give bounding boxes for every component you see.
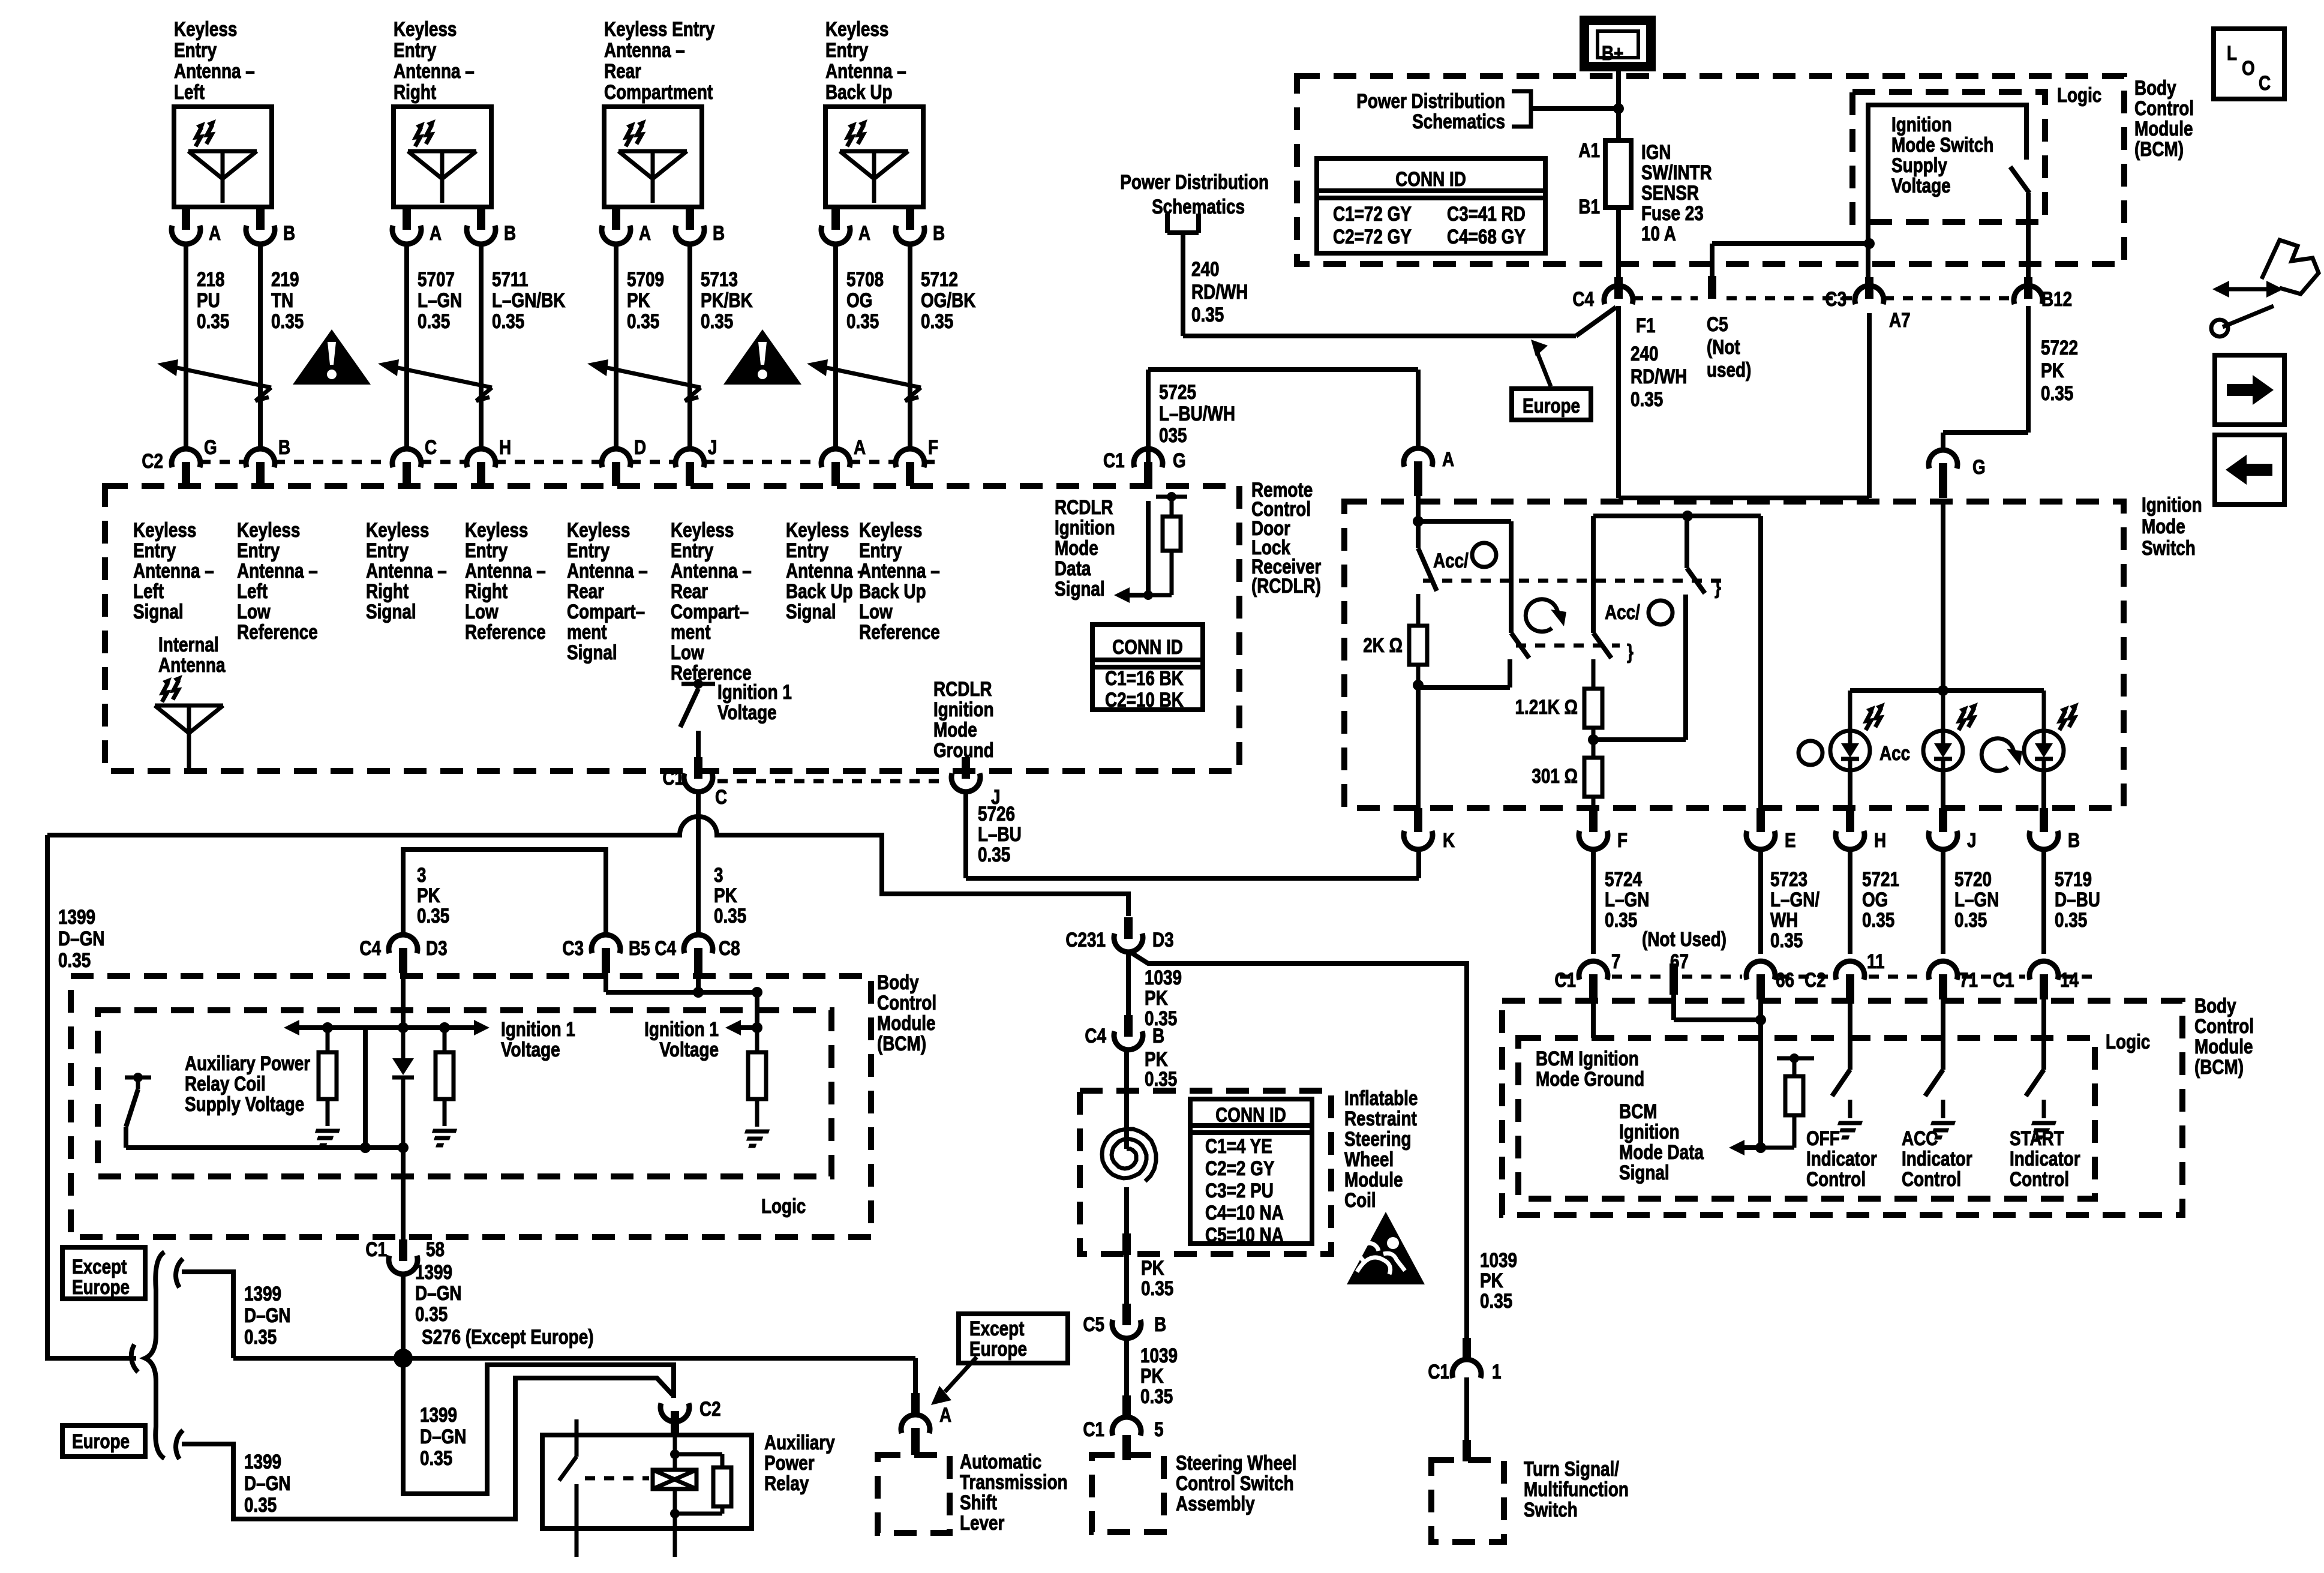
svg-text:C2: C2 <box>1804 968 1826 991</box>
automatic transmission wire <box>913 1358 918 1413</box>
svg-text:Acc: Acc <box>1879 742 1910 764</box>
svg-text:C4=68 GY: C4=68 GY <box>1447 225 1526 248</box>
svg-text:C1: C1 <box>662 766 684 789</box>
svg-text:Low: Low <box>465 600 499 623</box>
turn signal multifunction switch box <box>1431 1460 1504 1542</box>
svg-text:Signal: Signal <box>786 600 836 623</box>
svg-text:1039: 1039 <box>1140 1344 1178 1367</box>
diode <box>392 1028 414 1148</box>
wire A antenna 1 <box>184 245 188 448</box>
label C1 row left <box>1554 968 1576 991</box>
svg-text:Ignition: Ignition <box>1891 113 1952 136</box>
svg-text:0.35: 0.35 <box>417 904 449 927</box>
linkage dashed line 2 <box>1516 644 1620 648</box>
auxiliary power relay box <box>542 1435 752 1529</box>
label IGN SW fuse <box>1641 140 1712 245</box>
svg-text:Body: Body <box>2134 76 2176 99</box>
hook lower <box>176 1430 183 1459</box>
relay coil wiring <box>670 1436 731 1557</box>
wire label PK lower <box>1141 1256 1173 1299</box>
wire B antenna 2 <box>479 245 484 448</box>
svg-text:ACC: ACC <box>1902 1127 1938 1149</box>
svg-text:B: B <box>1152 1024 1164 1047</box>
svg-text:5707: 5707 <box>418 268 455 290</box>
connector C1 pin 1 <box>1428 1338 1501 1383</box>
svg-text:Ignition 1: Ignition 1 <box>717 680 792 703</box>
svg-text:Keyless: Keyless <box>859 518 922 541</box>
BCM bottom left box <box>71 976 871 1237</box>
wire label 5720 <box>1954 867 1999 931</box>
wire BCM pin 66 <box>1755 998 1766 1153</box>
antenna box 2 <box>394 107 491 207</box>
svg-text:Voltage: Voltage <box>659 1038 719 1061</box>
wire out of coil <box>1122 1187 1131 1304</box>
svg-text:Supply: Supply <box>1891 154 1948 176</box>
svg-text:A: A <box>209 221 221 244</box>
pin B antenna 3 <box>675 207 725 245</box>
LED bus <box>1850 685 2044 696</box>
ACC indicator control switch <box>1925 998 1955 1137</box>
svg-text:A7: A7 <box>1889 308 1911 331</box>
ignition mode switch box <box>1344 502 2124 808</box>
svg-text:RCDLR: RCDLR <box>1055 496 1113 518</box>
S276 bus <box>233 1356 915 1361</box>
rotate arrow 1 <box>1526 599 1566 632</box>
resistor ignition1 right <box>740 1028 769 1146</box>
svg-text:Mode: Mode <box>2142 515 2185 538</box>
Europe tag top <box>1512 340 1591 420</box>
svg-text:C5: C5 <box>1707 313 1728 335</box>
svg-text:0.35: 0.35 <box>1770 929 1803 951</box>
svg-text:A1: A1 <box>1578 139 1600 161</box>
label ignition 1 voltage left <box>501 1017 575 1061</box>
svg-text:IGN: IGN <box>1641 140 1671 163</box>
svg-text:L–BU/WH: L–BU/WH <box>1159 402 1235 425</box>
svg-text:B5: B5 <box>629 936 650 959</box>
wire C5 to C1 <box>1124 1340 1129 1397</box>
label steering wheel control switch assembly <box>1176 1451 1296 1515</box>
svg-text:A: A <box>854 436 866 458</box>
connector C1 pin 5 <box>1083 1395 1163 1441</box>
wire A antenna 2 <box>404 245 409 448</box>
svg-text:PK: PK <box>714 884 737 906</box>
wire label 3 PK left <box>417 863 449 927</box>
svg-text:0.35: 0.35 <box>1631 388 1663 410</box>
svg-text:Lever: Lever <box>960 1511 1004 1534</box>
svg-text:67: 67 <box>1670 950 1689 972</box>
svg-text:Keyless: Keyless <box>825 17 888 40</box>
svg-text:B: B <box>1154 1313 1166 1335</box>
relay switch <box>559 1419 577 1557</box>
rotate arrow 3 <box>1981 739 2022 771</box>
svg-text:Ignition: Ignition <box>1055 516 1115 539</box>
svg-text:C1=16 BK: C1=16 BK <box>1105 667 1184 689</box>
svg-text:0.35: 0.35 <box>846 310 879 332</box>
svg-text:F: F <box>1617 828 1628 851</box>
svg-text:Body: Body <box>2194 994 2236 1017</box>
wire 5725 loop <box>1148 370 1418 464</box>
svg-text:Antenna –: Antenna – <box>394 59 475 82</box>
svg-text:C4=10 NA: C4=10 NA <box>1205 1201 1284 1224</box>
label OFF indicator control <box>1806 1127 1877 1190</box>
wire 5724 <box>1591 851 1596 954</box>
label RCDLR ignition mode ground <box>933 677 994 761</box>
svg-text:0.35: 0.35 <box>1140 1385 1173 1407</box>
svg-text:Left: Left <box>174 80 205 103</box>
svg-text:218: 218 <box>197 268 225 290</box>
label power distribution schematics left <box>1120 170 1269 218</box>
svg-text:J: J <box>708 436 717 458</box>
label Acc 2 <box>1605 601 1673 625</box>
IMS A wire <box>1413 495 1424 548</box>
svg-text:C3: C3 <box>562 936 584 959</box>
wire label 5719 <box>2055 867 2100 931</box>
svg-text:D–GN: D–GN <box>244 1472 290 1494</box>
label logic top <box>2057 83 2101 106</box>
svg-text:Entry: Entry <box>859 539 902 562</box>
svg-text:}: } <box>1627 640 1634 663</box>
IMS wire to E <box>1758 516 1763 808</box>
svg-text:Supply Voltage: Supply Voltage <box>185 1092 304 1115</box>
LED OFF indicator <box>1830 691 1885 808</box>
next arrow box <box>2215 355 2284 425</box>
connector row dashed line fuse block <box>1633 296 2014 301</box>
svg-text:Control: Control <box>1902 1167 1961 1190</box>
internal antenna symbol <box>155 675 223 774</box>
ignition 1 voltage arrow right <box>725 1020 757 1035</box>
svg-text:Entry: Entry <box>133 539 176 562</box>
svg-text:Antenna –: Antenna – <box>859 559 940 582</box>
svg-text:C1=72 GY: C1=72 GY <box>1333 202 1412 225</box>
connector C2 pin J <box>675 436 717 486</box>
svg-text:OG/BK: OG/BK <box>921 289 976 311</box>
svg-text:C4: C4 <box>1085 1024 1106 1047</box>
svg-text:1399: 1399 <box>415 1260 452 1283</box>
splice S276 <box>394 1349 413 1368</box>
svg-text:L: L <box>2227 41 2237 64</box>
svg-text:Keyless: Keyless <box>174 17 237 40</box>
svg-text:Antenna –: Antenna – <box>133 559 214 582</box>
svg-text:Compart–: Compart– <box>567 600 645 623</box>
svg-text:0.35: 0.35 <box>1480 1289 1512 1312</box>
svg-text:Control: Control <box>2134 97 2194 119</box>
svg-text:Schematics: Schematics <box>1412 110 1505 133</box>
connector C2 relay <box>660 1397 721 1436</box>
wire power distribution to B+ <box>1531 103 1624 114</box>
label logic left <box>761 1194 806 1217</box>
RCDLR ignition 1 voltage switch <box>680 679 715 757</box>
RCDLR pin function label <box>366 518 447 623</box>
svg-text:Switch: Switch <box>2142 536 2196 559</box>
svg-text:0.35: 0.35 <box>420 1446 452 1469</box>
svg-text:0.35: 0.35 <box>627 310 659 332</box>
svg-text:0.35: 0.35 <box>2041 382 2073 404</box>
except europe arrow 2 <box>931 1357 977 1405</box>
svg-text:Module: Module <box>877 1011 936 1034</box>
svg-text:Schematics: Schematics <box>1152 195 1245 218</box>
BCM ignition mode data signal arrow <box>1729 1140 1761 1155</box>
antenna box 3 <box>604 107 702 207</box>
wire label 1399 relay branch <box>420 1403 466 1469</box>
wire label 3 PK right <box>714 863 746 927</box>
svg-text:Keyless: Keyless <box>465 518 528 541</box>
svg-text:G: G <box>1972 455 1986 478</box>
svg-text:Auxiliary: Auxiliary <box>764 1431 835 1454</box>
wire B+ to fuse <box>1616 67 1621 140</box>
wire 58 to S276 <box>401 1275 406 1350</box>
wire label 5712 <box>921 268 976 332</box>
svg-text:Body: Body <box>877 971 919 993</box>
svg-text:Left: Left <box>133 580 164 602</box>
label power distribution schematics (BCM) <box>1356 89 1505 133</box>
svg-text:Power Distribution: Power Distribution <box>1356 89 1505 112</box>
svg-text:C: C <box>425 436 437 458</box>
label keyless entry antenna 3 <box>604 17 715 103</box>
svg-text:5723: 5723 <box>1770 867 1807 890</box>
svg-text:A: A <box>858 221 870 244</box>
wire label 240 RD/WH right <box>1631 342 1687 410</box>
twisted pair arrow 4 <box>807 359 921 401</box>
svg-text:used): used) <box>1707 358 1751 381</box>
svg-text:Back Up: Back Up <box>859 580 926 602</box>
svg-text:Logic: Logic <box>761 1194 806 1217</box>
svg-text:C3: C3 <box>1825 287 1846 310</box>
connector J (IMS) <box>1929 808 1977 852</box>
svg-text:3: 3 <box>714 863 723 886</box>
wire 1399 horizontal with hop <box>47 816 1128 916</box>
svg-text:(BCM): (BCM) <box>877 1032 926 1055</box>
svg-text:D–BU: D–BU <box>2055 888 2100 911</box>
svg-text:Antenna –: Antenna – <box>237 559 318 582</box>
svg-text:Mode Switch: Mode Switch <box>1891 133 1993 156</box>
svg-text:Entry: Entry <box>394 38 437 61</box>
label ACC indicator control <box>1902 1127 1972 1190</box>
label ignition mode switch <box>2142 493 2202 559</box>
svg-text:5: 5 <box>1154 1418 1164 1440</box>
svg-text:0.35: 0.35 <box>271 310 304 332</box>
antenna symbol 1 <box>188 119 257 203</box>
svg-text:Power Distribution: Power Distribution <box>1120 170 1269 193</box>
wire 5723 <box>1758 851 1763 954</box>
svg-text:Ignition: Ignition <box>933 698 994 721</box>
svg-text:Reference: Reference <box>237 620 318 643</box>
svg-text:Except: Except <box>969 1317 1024 1340</box>
label BCM ignition mode ground <box>1536 1047 1644 1090</box>
ignition1 voltage bar <box>284 1020 490 1035</box>
svg-text:Signal: Signal <box>133 600 184 623</box>
wire 240 RD/WH to fork <box>1183 233 1616 336</box>
svg-text:Rear: Rear <box>567 580 604 602</box>
svg-text:Entry: Entry <box>174 38 217 61</box>
svg-text:Internal: Internal <box>158 633 219 656</box>
svg-text:Entry: Entry <box>825 38 869 61</box>
svg-text:SW/INTR: SW/INTR <box>1641 161 1712 184</box>
label Acc 3 <box>1879 742 1910 764</box>
svg-text:5708: 5708 <box>846 268 884 290</box>
back arrow box <box>2215 435 2284 505</box>
svg-text:Keyless: Keyless <box>567 518 630 541</box>
svg-text:D3: D3 <box>1152 928 1174 951</box>
wire 5721 <box>1848 851 1852 954</box>
svg-text:11: 11 <box>1867 950 1884 972</box>
twisted pair arrow 2 <box>378 359 492 401</box>
label C2 connector <box>142 449 163 472</box>
wire into SWCS <box>1122 1435 1131 1460</box>
svg-text:WH: WH <box>1770 908 1798 931</box>
logic box right <box>1518 1038 2095 1199</box>
svg-text:Turn Signal/: Turn Signal/ <box>1524 1457 1619 1480</box>
svg-text:E: E <box>1785 828 1796 851</box>
svg-text:PU: PU <box>197 289 220 311</box>
connector C4 pin C8 <box>654 935 740 973</box>
svg-text:L–GN: L–GN <box>1954 888 1999 911</box>
svg-text:C1=4 YE: C1=4 YE <box>1205 1134 1272 1157</box>
service icon <box>2211 240 2319 337</box>
svg-text:Fuse 23: Fuse 23 <box>1641 202 1704 224</box>
wire B antenna 3 <box>687 245 692 448</box>
wire label 218 <box>197 268 229 332</box>
svg-text:5720: 5720 <box>1954 867 1992 890</box>
svg-text:PK: PK <box>1145 986 1168 1009</box>
wire label 1399 C1-58 <box>415 1260 461 1325</box>
svg-text:OFF: OFF <box>1806 1127 1840 1149</box>
connector E (IMS) <box>1746 808 1796 852</box>
svg-text:Keyless: Keyless <box>133 518 196 541</box>
svg-text:ment: ment <box>671 620 711 643</box>
svg-text:A: A <box>939 1403 951 1426</box>
svg-text:0.35: 0.35 <box>58 948 91 971</box>
tall brace <box>145 1252 164 1458</box>
CONN ID table (RCDLR) <box>1092 625 1203 712</box>
svg-text:Right: Right <box>366 580 409 602</box>
relay linkage dashed <box>585 1476 649 1481</box>
svg-text:Keyless: Keyless <box>394 17 457 40</box>
svg-text:F: F <box>928 436 938 458</box>
label 1.21K ohm <box>1515 695 1578 718</box>
wire into coil <box>1124 1051 1129 1149</box>
svg-text:0.35: 0.35 <box>1954 908 1987 931</box>
svg-text:(RCDLR): (RCDLR) <box>1251 574 1321 597</box>
RCDLR data resistor <box>1148 492 1187 595</box>
svg-text:Entry: Entry <box>366 539 409 562</box>
RCDLR pin function label <box>671 518 752 684</box>
svg-text:RCDLR: RCDLR <box>933 677 992 700</box>
svg-text:5721: 5721 <box>1862 867 1899 890</box>
svg-text:D3: D3 <box>426 936 448 959</box>
IMS switch blade 4 <box>1687 516 1705 593</box>
2K resistor <box>1409 594 1427 688</box>
svg-text:RD/WH: RD/WH <box>1631 365 1687 388</box>
label not used 67 <box>1642 927 1727 950</box>
svg-text:H: H <box>1874 828 1886 851</box>
svg-text:Control: Control <box>877 991 936 1014</box>
svg-text:0.35: 0.35 <box>244 1493 277 1516</box>
svg-text:Compartment: Compartment <box>604 80 713 103</box>
IMS switch loop 1 <box>1418 521 1511 633</box>
wire label 5725 <box>1159 380 1235 446</box>
svg-text:PK: PK <box>1140 1364 1164 1387</box>
wire label 5713 <box>701 268 753 332</box>
svg-text:S276 (Except Europe): S276 (Except Europe) <box>422 1325 594 1348</box>
svg-text:Data: Data <box>1055 557 1091 580</box>
wire label 5723 <box>1770 867 1819 951</box>
connector C2 pin C <box>392 436 437 486</box>
relay coil <box>653 1470 696 1489</box>
svg-text:5713: 5713 <box>701 268 738 290</box>
svg-text:BCM: BCM <box>1619 1100 1657 1122</box>
svg-text:J: J <box>1967 828 1977 851</box>
svg-text:C1: C1 <box>365 1238 387 1260</box>
svg-text:0.35: 0.35 <box>415 1302 448 1325</box>
wire label 5707 <box>418 268 462 332</box>
wire 5726 J to K <box>966 793 1419 878</box>
svg-text:CONN ID: CONN ID <box>1112 635 1183 658</box>
bottom rail logic left <box>126 1142 409 1153</box>
svg-text:PK: PK <box>417 884 440 906</box>
svg-text:C5: C5 <box>1083 1313 1104 1335</box>
connector F (IMS) <box>1579 808 1628 852</box>
SIR warning triangle <box>1347 1212 1425 1284</box>
wire label PK upper <box>1145 1047 1177 1090</box>
svg-text:3: 3 <box>417 863 427 886</box>
wire label 1399 except europe <box>244 1282 290 1348</box>
wire label 1039 PK lower <box>1140 1344 1178 1407</box>
RCDLR pin function label <box>786 518 867 623</box>
wire label 5721 <box>1862 867 1899 931</box>
BCM top module box <box>1297 76 2124 264</box>
svg-text:5722: 5722 <box>2041 336 2078 359</box>
svg-text:1399: 1399 <box>244 1282 281 1305</box>
svg-text:1.21K Ω: 1.21K Ω <box>1515 695 1578 718</box>
svg-text:Back Up: Back Up <box>825 80 893 103</box>
svg-text:B: B <box>504 221 516 244</box>
svg-text:C1: C1 <box>1083 1418 1104 1440</box>
svg-text:H: H <box>499 436 511 458</box>
svg-text:Rear: Rear <box>671 580 708 602</box>
svg-text:C3=2 PU: C3=2 PU <box>1205 1179 1274 1202</box>
svg-text:Shift: Shift <box>960 1491 997 1514</box>
label 2K ohm <box>1363 634 1403 656</box>
pin A antenna 2 <box>392 207 442 245</box>
svg-text:2K Ω: 2K Ω <box>1363 634 1403 656</box>
wire A7 loop <box>1619 313 1869 498</box>
wire label 219 <box>271 268 304 332</box>
START indicator control switch <box>2026 998 2056 1137</box>
svg-text:C4: C4 <box>359 936 381 959</box>
301 resistor <box>1584 758 1602 808</box>
svg-text:A: A <box>430 221 442 244</box>
svg-text:Keyless Entry: Keyless Entry <box>604 17 715 40</box>
except europe tag 2 <box>959 1314 1068 1363</box>
svg-text:F1: F1 <box>1636 314 1656 337</box>
label inflatable restraint coil <box>1344 1086 1418 1211</box>
connector B (IMS) <box>2029 808 2080 852</box>
connector row dashed line C1 bottom <box>717 779 947 784</box>
svg-text:Indicator: Indicator <box>1902 1147 1972 1170</box>
svg-text:Mode Data: Mode Data <box>1619 1140 1704 1163</box>
wire S276 to relay <box>403 1358 674 1494</box>
wire fuse to C4 <box>1616 208 1621 277</box>
svg-text:Compart–: Compart– <box>671 600 749 623</box>
svg-text:Reference: Reference <box>859 620 940 643</box>
svg-text:Entry: Entry <box>786 539 829 562</box>
svg-text:0.35: 0.35 <box>1862 908 1894 931</box>
connector C2 pin G <box>172 436 217 486</box>
svg-text:Power: Power <box>764 1451 815 1474</box>
connector C2 pin H <box>467 436 511 486</box>
connector C1 pin J <box>951 757 1001 809</box>
svg-text:0.35: 0.35 <box>2055 908 2087 931</box>
